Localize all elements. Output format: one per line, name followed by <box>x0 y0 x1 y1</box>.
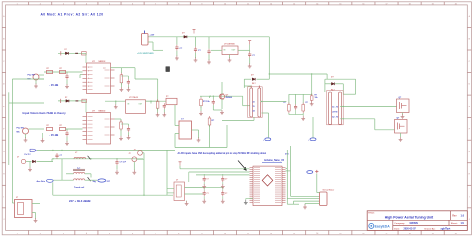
svg-text:2: 2 <box>40 3 41 5</box>
svg-text:C?: C? <box>225 193 227 195</box>
svg-text:Aux Driv: Aux Driv <box>37 180 46 183</box>
svg-text:A2 - Y5: A2 - Y5 <box>332 116 338 119</box>
svg-text:A2: A2 <box>253 110 255 113</box>
svg-text:17: 17 <box>386 3 388 5</box>
svg-text:16: 16 <box>362 233 364 235</box>
svg-text:3: 3 <box>63 233 64 235</box>
svg-text:PUL TR?: PUL TR? <box>28 75 36 77</box>
svg-text:9: 9 <box>201 233 202 235</box>
svg-text:18: 18 <box>409 233 411 235</box>
svg-text:12: 12 <box>270 3 272 5</box>
svg-text:Company:: Company: <box>394 223 405 225</box>
svg-text:C? 1nF: C? 1nF <box>120 162 127 164</box>
svg-text:Y5: Y5 <box>253 106 255 108</box>
svg-text:4: 4 <box>86 232 87 235</box>
svg-text:14: 14 <box>316 232 318 235</box>
svg-text:11: 11 <box>247 3 249 5</box>
svg-text:2020-02-07: 2020-02-07 <box>404 227 417 230</box>
svg-text:3: 3 <box>63 3 64 5</box>
svg-text:R?: R? <box>47 125 49 127</box>
svg-text:14: 14 <box>316 2 318 5</box>
svg-text:20: 20 <box>455 233 457 235</box>
svg-text:8: 8 <box>178 3 179 5</box>
svg-text:18: 18 <box>409 3 411 5</box>
svg-text:+: + <box>263 139 264 141</box>
svg-text:U? 78L05: U? 78L05 <box>129 97 139 99</box>
svg-text:U? LM7805: U? LM7805 <box>224 44 235 46</box>
svg-text:R?: R? <box>284 102 286 104</box>
svg-text:15: 15 <box>339 3 341 5</box>
svg-text:247 + 39.3 dBdB: 247 + 39.3 dBdB <box>69 199 91 203</box>
svg-text:R? 10k: R? 10k <box>203 101 210 103</box>
svg-text:R?: R? <box>60 125 62 127</box>
svg-text:At AD inputs have 1NF decoupli: At AD inputs have 1NF decoupling added a… <box>178 152 267 155</box>
svg-text:9: 9 <box>201 3 202 5</box>
svg-text:5: 5 <box>109 233 110 235</box>
svg-text:17: 17 <box>386 233 388 235</box>
svg-text:11: 11 <box>247 233 249 235</box>
svg-text:J: J <box>3 219 4 221</box>
svg-text:2: 2 <box>40 233 41 235</box>
svg-text:+: + <box>308 139 309 141</box>
svg-text:Arduino_Nano_V3: Arduino_Nano_V3 <box>264 159 285 162</box>
svg-text:R?: R? <box>306 102 308 104</box>
svg-text:- 15 dB: - 15 dB <box>49 133 58 137</box>
svg-text:GB0SN: GB0SN <box>410 222 419 225</box>
svg-text:1.0: 1.0 <box>461 214 465 218</box>
svg-text:Servo Motor: Servo Motor <box>323 189 335 192</box>
svg-text:D?: D? <box>65 97 67 99</box>
svg-text:13: 13 <box>293 3 295 5</box>
svg-text:5: 5 <box>109 3 110 5</box>
svg-text:Tuned coil: Tuned coil <box>74 187 85 189</box>
svg-text:J?: J? <box>134 150 136 152</box>
svg-text:Drawn By:: Drawn By: <box>425 228 436 230</box>
svg-text:1: 1 <box>17 3 18 5</box>
svg-text:NE5532: NE5532 <box>99 61 106 63</box>
svg-text:C?: C? <box>206 193 208 195</box>
svg-text:Input Volum Gain 74dB in theor: Input Volum Gain 74dB in theory <box>23 111 67 115</box>
svg-text:10k: 10k <box>315 97 318 99</box>
svg-text:7: 7 <box>155 233 156 235</box>
svg-text:20: 20 <box>455 3 457 5</box>
svg-text:16: 16 <box>362 3 364 5</box>
svg-text:Sheet:: Sheet: <box>451 222 458 225</box>
svg-text:High Power Aerial Tuning Unit: High Power Aerial Tuning Unit <box>385 215 434 219</box>
svg-text:xgbfTyvt: xgbfTyvt <box>441 227 451 230</box>
svg-text:C?: C? <box>206 179 208 181</box>
svg-text:1: 1 <box>17 233 18 235</box>
svg-text:NE5532: NE5532 <box>99 110 106 112</box>
svg-text:+12V SWITCHED: +12V SWITCHED <box>137 53 154 55</box>
svg-text:A1 - Y5: A1 - Y5 <box>332 106 338 109</box>
svg-text:Rev: Rev <box>452 215 457 218</box>
svg-text:C?: C? <box>225 179 227 181</box>
svg-text:7: 7 <box>155 3 156 5</box>
svg-text:10: 10 <box>224 3 226 5</box>
svg-text:(7)*7/9: (7)*7/9 <box>332 112 337 114</box>
svg-text:13: 13 <box>293 233 295 235</box>
svg-text:4: 4 <box>86 2 87 5</box>
svg-text:19: 19 <box>432 233 434 235</box>
svg-text:- 15 dB: - 15 dB <box>49 83 58 87</box>
svg-text:J: J <box>469 219 470 221</box>
svg-text:12: 12 <box>270 233 272 235</box>
svg-text:10: 10 <box>224 233 226 235</box>
svg-text:PUL TR?: PUL TR? <box>17 128 25 130</box>
svg-text:R?: R? <box>47 68 49 70</box>
svg-text:D?: D? <box>65 49 67 51</box>
svg-text:A0 Mod: A1 Prev: A2 Sir: A0: A0 Mod: A1 Prev: A2 Sir: A0 120 <box>41 12 104 16</box>
svg-text:A1: A1 <box>253 101 255 104</box>
svg-text:EasyEDA: EasyEDA <box>375 224 391 228</box>
svg-text:2N3904: 2N3904 <box>226 96 232 99</box>
svg-text:6: 6 <box>132 233 133 235</box>
svg-text:+12V: +12V <box>150 35 155 37</box>
svg-text:8: 8 <box>178 233 179 235</box>
svg-text:R?: R? <box>60 68 62 70</box>
svg-text:TITLE:: TITLE: <box>368 212 375 214</box>
svg-text:Date:: Date: <box>394 227 400 230</box>
svg-text:15: 15 <box>339 233 341 235</box>
svg-text:6: 6 <box>132 3 133 5</box>
svg-text:19: 19 <box>432 3 434 5</box>
svg-text:Pul Tr?: Pul Tr? <box>25 154 31 156</box>
